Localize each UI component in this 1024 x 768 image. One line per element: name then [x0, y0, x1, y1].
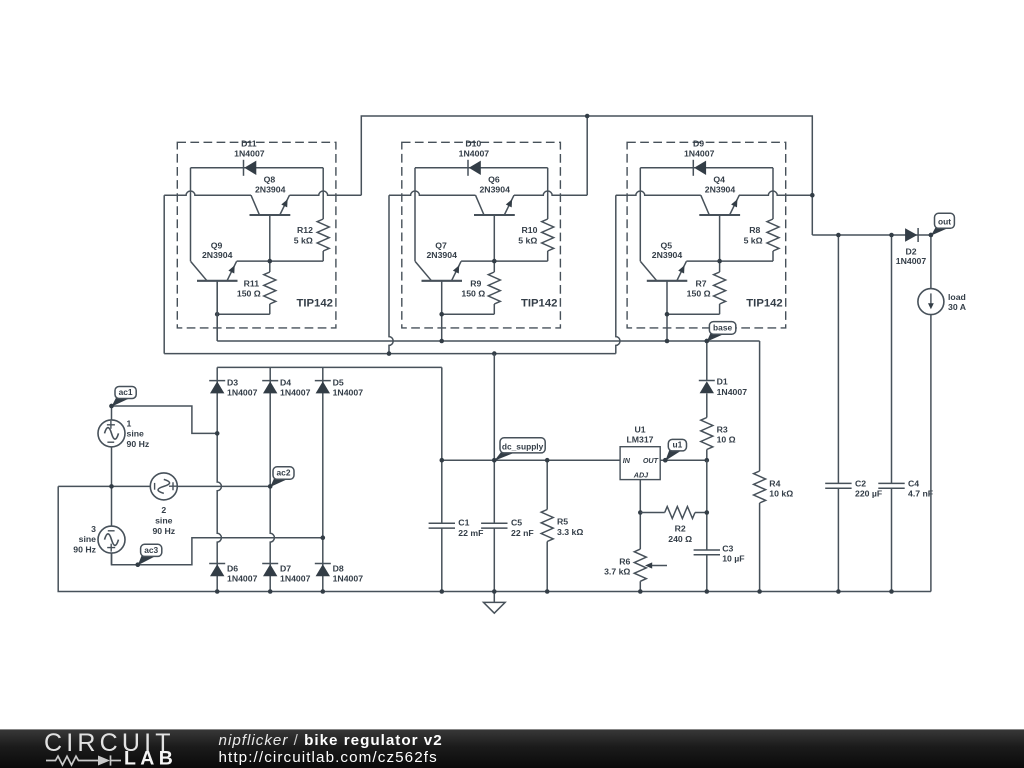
svg-text:1N4007: 1N4007: [717, 387, 748, 397]
svg-text:LAB: LAB: [124, 748, 177, 768]
svg-text:R3: R3: [717, 425, 728, 435]
svg-text:ac3: ac3: [144, 545, 158, 555]
svg-text:5 kΩ: 5 kΩ: [744, 235, 763, 245]
svg-text:R2: R2: [675, 524, 686, 534]
svg-text:1N4007: 1N4007: [234, 149, 265, 159]
svg-text:TIP142: TIP142: [746, 298, 782, 310]
svg-text:LM317: LM317: [626, 435, 653, 445]
svg-text:1N4007: 1N4007: [280, 387, 311, 397]
svg-text:R7: R7: [696, 279, 707, 289]
svg-text:u1: u1: [673, 439, 683, 449]
svg-text:D6: D6: [227, 563, 238, 573]
svg-text:2N3904: 2N3904: [255, 185, 286, 195]
svg-text:C3: C3: [722, 543, 733, 553]
svg-text:TIP142: TIP142: [296, 298, 332, 310]
svg-text:10 kΩ: 10 kΩ: [769, 488, 793, 498]
svg-text:1N4007: 1N4007: [896, 256, 927, 266]
svg-text:150 Ω: 150 Ω: [687, 288, 711, 298]
svg-text:D1: D1: [717, 377, 728, 387]
svg-text:150 Ω: 150 Ω: [461, 288, 485, 298]
svg-text:1N4007: 1N4007: [459, 149, 490, 159]
svg-text:D8: D8: [333, 563, 344, 573]
svg-text:D9: D9: [693, 139, 704, 149]
svg-text:out: out: [938, 217, 951, 227]
svg-text:D4: D4: [280, 377, 291, 387]
svg-text:2N3904: 2N3904: [652, 250, 683, 260]
svg-text:150 Ω: 150 Ω: [237, 288, 261, 298]
svg-text:2: 2: [161, 505, 166, 515]
svg-text:sine: sine: [79, 534, 97, 544]
svg-text:http://circuitlab.com/cz562fs: http://circuitlab.com/cz562fs: [219, 749, 438, 766]
svg-text:10 Ω: 10 Ω: [717, 434, 736, 444]
svg-text:1N4007: 1N4007: [333, 387, 364, 397]
svg-text:2N3904: 2N3904: [479, 185, 510, 195]
svg-text:D7: D7: [280, 563, 291, 573]
svg-text:1N4007: 1N4007: [227, 573, 258, 583]
svg-text:C5: C5: [511, 517, 522, 527]
svg-text:D11: D11: [241, 139, 257, 149]
svg-text:D5: D5: [333, 377, 344, 387]
svg-text:sine: sine: [127, 429, 145, 439]
svg-text:dc_supply: dc_supply: [502, 441, 544, 451]
svg-text:base: base: [713, 323, 732, 333]
svg-text:5 kΩ: 5 kΩ: [294, 235, 313, 245]
svg-text:3: 3: [91, 524, 96, 534]
svg-text:2N3904: 2N3904: [202, 250, 233, 260]
svg-text:C1: C1: [458, 517, 469, 527]
svg-text:1N4007: 1N4007: [227, 387, 258, 397]
svg-text:U1: U1: [634, 425, 645, 435]
svg-text:2N3904: 2N3904: [426, 250, 457, 260]
svg-text:90 Hz: 90 Hz: [127, 439, 150, 449]
svg-text:ac2: ac2: [277, 468, 291, 478]
svg-text:R6: R6: [619, 556, 630, 566]
svg-text:30 A: 30 A: [948, 302, 967, 312]
svg-text:R8: R8: [749, 225, 760, 235]
svg-text:load: load: [948, 292, 966, 302]
svg-text:10 µF: 10 µF: [722, 554, 744, 564]
svg-text:90 Hz: 90 Hz: [73, 545, 96, 555]
svg-text:1N4007: 1N4007: [684, 149, 715, 159]
svg-text:2N3904: 2N3904: [705, 185, 736, 195]
svg-text:ADJ: ADJ: [633, 470, 649, 479]
svg-text:nipflicker / bike regulator v2: nipflicker / bike regulator v2: [219, 732, 443, 749]
svg-text:240 Ω: 240 Ω: [668, 534, 692, 544]
svg-text:R10: R10: [522, 225, 538, 235]
svg-text:R5: R5: [557, 517, 568, 527]
svg-text:R11: R11: [244, 279, 260, 289]
svg-text:5 kΩ: 5 kΩ: [518, 235, 537, 245]
svg-text:90 Hz: 90 Hz: [152, 526, 175, 536]
svg-text:D10: D10: [465, 139, 481, 149]
svg-text:TIP142: TIP142: [521, 298, 557, 310]
svg-text:sine: sine: [155, 516, 173, 526]
svg-text:3.7 kΩ: 3.7 kΩ: [604, 567, 630, 577]
svg-text:R4: R4: [769, 479, 780, 489]
svg-text:1: 1: [127, 418, 132, 428]
svg-text:R12: R12: [297, 225, 313, 235]
svg-text:1N4007: 1N4007: [280, 573, 311, 583]
svg-text:C2: C2: [855, 479, 866, 489]
svg-text:4.7 nF: 4.7 nF: [908, 489, 933, 499]
svg-text:Q6: Q6: [488, 174, 500, 184]
svg-text:IN: IN: [623, 456, 631, 465]
svg-text:22 mF: 22 mF: [458, 528, 483, 538]
svg-text:3.3 kΩ: 3.3 kΩ: [557, 527, 583, 537]
svg-text:Q8: Q8: [264, 174, 276, 184]
svg-text:22 nF: 22 nF: [511, 528, 534, 538]
svg-text:OUT: OUT: [643, 456, 659, 465]
svg-text:ac1: ac1: [119, 387, 133, 397]
svg-text:Q4: Q4: [713, 174, 725, 184]
svg-text:D3: D3: [227, 377, 238, 387]
svg-text:220 µF: 220 µF: [855, 489, 882, 499]
svg-text:D2: D2: [905, 246, 916, 256]
svg-text:R9: R9: [470, 279, 481, 289]
svg-text:C4: C4: [908, 479, 919, 489]
svg-text:1N4007: 1N4007: [333, 573, 364, 583]
